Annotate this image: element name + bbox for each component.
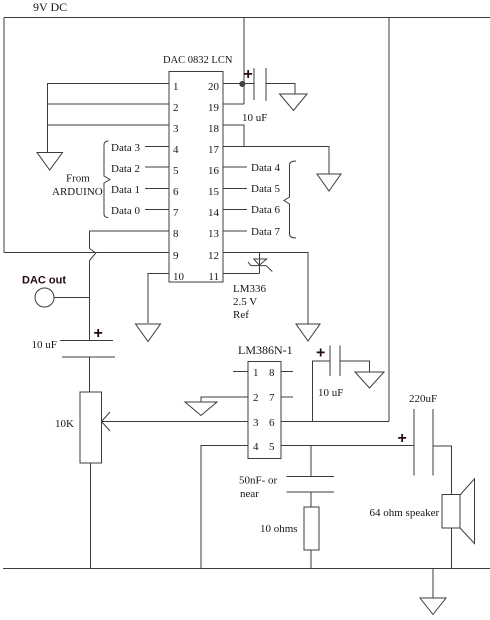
wire 50nF to resistor: [310, 492, 312, 507]
svg-text:LM386N-1: LM386N-1: [238, 343, 293, 357]
wire hop over pin 9: [90, 249, 96, 261]
svg-text:DAC 0832 LCN: DAC 0832 LCN: [163, 55, 233, 66]
wire bypass cap right to ground: [340, 361, 370, 372]
svg-text:Data 4: Data 4: [251, 162, 281, 174]
svg-text:7: 7: [269, 392, 275, 404]
svg-text:10: 10: [173, 271, 185, 283]
svg-text:Data 1: Data 1: [111, 184, 140, 196]
capacitor C1 10uF top plates: [253, 68, 255, 100]
wire pin 19: [223, 103, 244, 105]
wire right rail: [388, 18, 390, 422]
wire LM386 pin 7 stub: [281, 396, 293, 398]
svg-text:10 uF: 10 uF: [32, 339, 57, 351]
svg-text:12: 12: [208, 250, 219, 262]
svg-text:1: 1: [173, 81, 179, 93]
svg-text:7: 7: [173, 207, 179, 219]
brace left From ARDUINO: [104, 141, 110, 218]
potentiometer 10K body: [80, 392, 102, 463]
wire bypass cap drop: [313, 361, 331, 422]
wire top 9V rail: [4, 17, 490, 19]
ground top cap triangle: [280, 94, 308, 111]
svg-text:near: near: [240, 488, 259, 500]
svg-text:Data 6: Data 6: [251, 204, 281, 216]
wire pin 7 Data 0 stub: [145, 209, 169, 211]
wire 50nF drop: [310, 446, 312, 477]
wire resistor to bottom rail: [310, 550, 312, 569]
wire pin 8 down with hop: [90, 231, 170, 249]
IC U2 LM386 body: [248, 362, 281, 459]
wire LM386 pin 4 to bottom rail: [201, 446, 248, 569]
capacitor C5 220uF plates: [413, 409, 415, 476]
speaker LS1 horn: [460, 479, 475, 544]
svg-text:4: 4: [253, 441, 259, 453]
wire pin 20 to junction: [223, 83, 254, 85]
wire LM386 pin 6 to right rail: [281, 421, 389, 423]
capacitor C2 10uF left plates: [60, 340, 113, 342]
speaker LS1 body: [442, 495, 460, 529]
capacitor C3 10uF bypass plates: [329, 346, 331, 377]
svg-text:50nF- or: 50nF- or: [239, 475, 278, 487]
potentiometer wiper arrow: [102, 412, 111, 431]
svg-text:3: 3: [253, 417, 259, 429]
wire DAC out to vertical: [54, 297, 90, 299]
svg-text:5: 5: [269, 441, 275, 453]
svg-text:+: +: [398, 430, 407, 447]
svg-text:17: 17: [208, 144, 220, 156]
wire LM386 pin 5 to 220uF: [281, 445, 414, 447]
ground pins 1-3 triangle: [37, 153, 63, 171]
svg-text:14: 14: [208, 207, 220, 219]
IC U1 DAC0832 body: [169, 72, 223, 283]
wire speaker to bottom rail: [451, 528, 453, 569]
wire left rail: [3, 18, 5, 253]
wire pin 9 from left rail: [4, 252, 169, 254]
svg-text:8: 8: [173, 228, 179, 240]
wire pin 6 Data 1 stub: [145, 188, 169, 190]
svg-text:Data 3: Data 3: [111, 142, 141, 154]
svg-text:2: 2: [173, 102, 179, 114]
svg-text:15: 15: [208, 186, 220, 198]
svg-text:11: 11: [208, 271, 219, 283]
wire DAC supply drop to pin 19: [243, 18, 245, 105]
svg-text:+: +: [244, 66, 253, 83]
wire LM386 pin 1 stub: [233, 371, 248, 373]
svg-text:Ref: Ref: [233, 309, 249, 321]
svg-text:1: 1: [253, 367, 259, 379]
wire pin 10 to ground: [148, 274, 169, 324]
svg-text:18: 18: [208, 123, 220, 135]
wire pin 4 Data 3 stub: [145, 146, 169, 148]
ground bypass cap triangle: [355, 372, 384, 388]
svg-text:ARDUINO: ARDUINO: [52, 186, 103, 198]
svg-text:10 uF: 10 uF: [318, 387, 343, 399]
brace right Data 4-7: [284, 161, 296, 238]
wire pin 16 Data 4 stub: [223, 166, 247, 168]
wire pin 13 Data 7 stub: [223, 230, 247, 232]
svg-text:6: 6: [269, 417, 275, 429]
svg-text:220uF: 220uF: [409, 393, 437, 405]
junction dot pin 20: [239, 81, 245, 87]
wire pin 11 to LM336: [223, 273, 260, 275]
ground pin 12 triangle: [296, 324, 320, 341]
wire bottom rail: [3, 568, 490, 570]
svg-text:DAC out: DAC out: [22, 275, 66, 287]
svg-text:Data 7: Data 7: [251, 226, 281, 238]
svg-text:9V DC: 9V DC: [33, 0, 67, 14]
wire pot bottom to bottom rail: [90, 463, 92, 569]
wire pin 8 continues down to cap: [89, 261, 91, 341]
wire pin 3 left: [48, 124, 170, 126]
svg-text:+: +: [316, 345, 325, 362]
svg-text:6: 6: [173, 186, 179, 198]
svg-text:Data 5: Data 5: [251, 183, 281, 195]
svg-text:13: 13: [208, 228, 220, 240]
svg-text:4: 4: [173, 144, 179, 156]
svg-text:3: 3: [173, 123, 179, 135]
svg-text:10 ohms: 10 ohms: [260, 523, 298, 535]
wire pin 12 to ground: [223, 253, 308, 325]
svg-text:5: 5: [173, 165, 179, 177]
svg-text:64 ohm speaker: 64 ohm speaker: [370, 507, 440, 519]
wire pin 17 to ground: [223, 147, 329, 175]
wire pin 18 to pin 17: [223, 125, 244, 147]
svg-text:LM336: LM336: [233, 283, 267, 295]
svg-text:8: 8: [269, 367, 275, 379]
svg-text:Data 2: Data 2: [111, 163, 140, 175]
wire pin 2 left: [48, 103, 170, 105]
wire pin 15 Data 5 stub: [223, 188, 247, 190]
wire pin 14 Data 6 stub: [223, 209, 247, 211]
svg-text:10K: 10K: [55, 418, 74, 430]
svg-text:19: 19: [208, 102, 220, 114]
wire bottom ground stub: [432, 569, 434, 599]
resistor 10 ohms body: [304, 507, 319, 550]
capacitor C4 50nF plates: [287, 476, 335, 478]
svg-text:Data 0: Data 0: [111, 205, 141, 217]
wire cap C1 to ground: [266, 84, 295, 95]
svg-text:10 uF: 10 uF: [242, 112, 267, 124]
wire 220uF right to speaker: [433, 446, 452, 495]
wire pot wiper to LM386 pin 3: [102, 421, 249, 423]
ground pins 17-18 triangle: [317, 174, 341, 191]
svg-text:9: 9: [173, 250, 179, 262]
svg-text:+: +: [94, 325, 103, 342]
wire LM386 pin 2 to ground: [201, 397, 248, 402]
terminal DAC out circle: [35, 288, 54, 307]
wire pins 1-3 bus left: [48, 84, 170, 153]
diode D1 LM336 pin: [258, 253, 260, 274]
svg-text:2: 2: [253, 392, 259, 404]
wire pin 5 Data 2 stub: [145, 166, 169, 168]
ground LM386 pin2 triangle: [185, 402, 217, 416]
svg-text:16: 16: [208, 165, 220, 177]
wire LM386 pin 8 stub: [281, 371, 293, 373]
svg-text:From: From: [66, 173, 90, 185]
diode D1 LM336 symbol: [254, 259, 267, 265]
svg-text:2.5 V: 2.5 V: [233, 296, 257, 308]
ground bottom triangle: [420, 598, 446, 615]
wire cap to pot: [89, 357, 91, 392]
svg-text:20: 20: [208, 81, 220, 93]
ground pin 10 triangle: [136, 324, 161, 342]
